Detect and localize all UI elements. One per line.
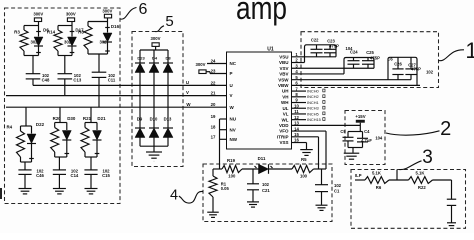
svg-text:475P: 475P <box>329 44 339 49</box>
svg-text:17: 17 <box>211 134 216 139</box>
svg-text:VH: VH <box>282 94 288 99</box>
svg-text:C22: C22 <box>311 38 319 43</box>
svg-text:302: 302 <box>99 39 107 44</box>
svg-text:C48: C48 <box>42 78 50 83</box>
svg-text:5: 5 <box>165 13 173 30</box>
svg-text:INCH1: INCH1 <box>307 100 319 105</box>
svg-text:D11: D11 <box>258 156 266 161</box>
svg-text:22: 22 <box>211 80 216 85</box>
svg-text:R21: R21 <box>83 116 92 121</box>
svg-text:102: 102 <box>426 70 434 75</box>
svg-text:C21: C21 <box>262 188 270 193</box>
svg-text:300V: 300V <box>196 62 206 67</box>
svg-text:C46: C46 <box>36 173 44 178</box>
svg-text:300V: 300V <box>33 11 43 16</box>
svg-text:D9: D9 <box>137 117 143 122</box>
svg-text:NU: NU <box>230 117 237 122</box>
svg-text:C15: C15 <box>102 173 110 178</box>
svg-text:VSW: VSW <box>278 77 289 82</box>
svg-text:D8: D8 <box>165 56 171 61</box>
svg-text:24: 24 <box>211 59 216 64</box>
svg-text:+15V: +15V <box>355 114 365 119</box>
svg-text:C14: C14 <box>71 173 79 178</box>
svg-text:VSU: VSU <box>279 54 288 59</box>
svg-text:5.1K: 5.1K <box>372 170 382 175</box>
svg-text:3: 3 <box>422 147 433 168</box>
svg-text:5.1K: 5.1K <box>416 170 426 175</box>
svg-text:4.7uF: 4.7uF <box>361 138 372 143</box>
svg-text:2: 2 <box>440 118 451 140</box>
svg-text:UH: UH <box>282 89 289 94</box>
svg-text:D4: D4 <box>152 56 158 61</box>
svg-text:ILP: ILP <box>355 173 362 178</box>
svg-text:D22: D22 <box>36 122 45 127</box>
svg-text:104: 104 <box>375 136 383 141</box>
svg-text:R6: R6 <box>376 185 382 190</box>
svg-text:VBU: VBU <box>279 60 289 65</box>
svg-text:U: U <box>230 83 233 88</box>
svg-text:R8: R8 <box>78 30 84 35</box>
svg-text:VBV: VBV <box>279 72 288 77</box>
svg-text:U1: U1 <box>267 47 274 53</box>
svg-text:INCH5: INCH5 <box>307 111 319 116</box>
svg-text:VSS: VSS <box>279 140 288 145</box>
svg-text:U: U <box>186 80 189 85</box>
svg-text:R14: R14 <box>47 30 56 35</box>
svg-text:VSV: VSV <box>279 66 288 71</box>
svg-text:19: 19 <box>211 114 216 119</box>
svg-text:C11: C11 <box>108 78 116 83</box>
svg-text:D30: D30 <box>67 116 76 121</box>
svg-text:300V: 300V <box>102 9 112 14</box>
svg-text:C26: C26 <box>394 62 402 67</box>
svg-text:P: P <box>230 71 233 76</box>
svg-text:VDD: VDD <box>279 123 289 128</box>
svg-text:20: 20 <box>211 102 216 107</box>
svg-text:300V: 300V <box>151 36 161 41</box>
svg-text:D21: D21 <box>97 116 106 121</box>
svg-text:C13: C13 <box>73 78 81 83</box>
svg-text:23: 23 <box>211 69 216 74</box>
svg-text:R20: R20 <box>53 116 62 121</box>
svg-text:0.05: 0.05 <box>221 186 230 191</box>
svg-text:NV: NV <box>230 127 236 132</box>
svg-text:NC: NC <box>230 61 237 66</box>
svg-text:VFO: VFO <box>279 129 289 134</box>
svg-text:D10: D10 <box>150 117 158 122</box>
svg-text:302: 302 <box>30 39 38 44</box>
svg-text:V: V <box>230 93 233 98</box>
svg-text:V: V <box>186 90 189 95</box>
svg-text:C6: C6 <box>387 57 393 62</box>
svg-text:1: 1 <box>465 38 474 63</box>
svg-text:R22: R22 <box>418 185 426 190</box>
svg-text:102: 102 <box>334 183 342 188</box>
svg-text:WH: WH <box>281 100 289 105</box>
svg-text:C24: C24 <box>350 50 358 55</box>
svg-text:amp: amp <box>236 0 287 26</box>
svg-text:WL: WL <box>282 117 289 122</box>
svg-text:ITRIP: ITRIP <box>277 134 289 139</box>
svg-text:R5: R5 <box>301 157 307 162</box>
svg-text:6: 6 <box>139 1 148 18</box>
svg-text:INCH15: INCH15 <box>307 117 321 122</box>
svg-text:INCH0: INCH0 <box>307 88 320 93</box>
svg-text:102: 102 <box>262 182 270 187</box>
svg-text:C1: C1 <box>334 189 340 194</box>
svg-text:INCH3: INCH3 <box>307 106 319 111</box>
svg-text:VBW: VBW <box>278 83 289 88</box>
svg-text:NW: NW <box>230 137 238 142</box>
svg-text:VL: VL <box>283 112 289 117</box>
svg-text:INCH2: INCH2 <box>307 94 319 99</box>
svg-text:302: 302 <box>64 39 72 44</box>
svg-text:18: 18 <box>211 125 216 130</box>
svg-text:475P: 475P <box>370 55 380 60</box>
svg-text:4: 4 <box>170 188 178 204</box>
svg-text:C9: C9 <box>340 129 346 134</box>
svg-text:UL: UL <box>283 106 289 111</box>
svg-text:D13: D13 <box>164 117 172 122</box>
svg-text:21: 21 <box>211 91 216 96</box>
svg-text:D16: D16 <box>111 24 120 29</box>
svg-text:300V: 300V <box>66 11 76 16</box>
svg-text:475P: 475P <box>411 67 421 72</box>
svg-text:100: 100 <box>300 173 308 178</box>
svg-text:D23: D23 <box>137 56 145 61</box>
svg-text:C4: C4 <box>364 129 370 134</box>
svg-text:R3: R3 <box>14 30 20 35</box>
svg-text:100: 100 <box>228 173 236 178</box>
svg-text:R4: R4 <box>6 125 12 130</box>
svg-text:R19: R19 <box>227 158 236 163</box>
